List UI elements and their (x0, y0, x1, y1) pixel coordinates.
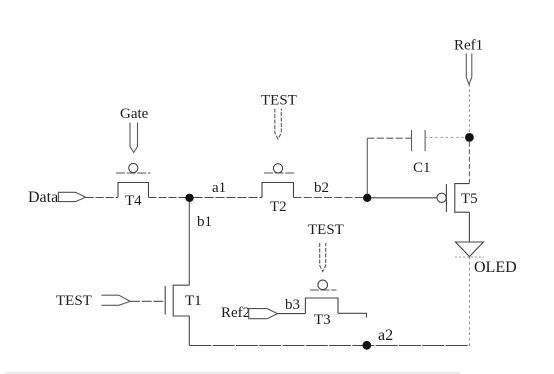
junction node on Ref1 line (465, 133, 474, 142)
svg-text:a2: a2 (378, 327, 393, 344)
wire T5 source down (468, 212, 470, 242)
wire Ref2 to T3 (278, 313, 306, 315)
transistor T3 (305, 280, 338, 328)
input arrow Ref2 (249, 309, 278, 319)
scan smudge bottom edge (5, 372, 460, 374)
wire T2 to node b2 (294, 197, 364, 199)
svg-text:b2: b2 (314, 180, 329, 196)
svg-text:Data: Data (28, 189, 58, 206)
svg-text:T1: T1 (185, 293, 202, 309)
control arrow Gate (130, 123, 138, 153)
wire TEST arrow to T1 gate (130, 300, 165, 302)
control arrow TEST left (102, 295, 131, 305)
control arrow TEST over T3 (320, 243, 326, 272)
svg-text:T2: T2 (270, 199, 287, 215)
wire node b2 to T5 gate (371, 197, 437, 199)
capacitor C1 (412, 130, 431, 176)
junction node a2 (362, 341, 371, 350)
supply arrow Ref1 (466, 54, 472, 85)
transistor T2 (262, 164, 295, 215)
svg-text:b1: b1 (197, 214, 212, 230)
svg-text:T4: T4 (125, 193, 142, 209)
junction node b2 (363, 194, 371, 202)
wire C1 left lead (367, 137, 411, 139)
svg-text:TEST: TEST (308, 222, 344, 238)
wire T3 drain stub (338, 313, 367, 317)
svg-text:Gate: Gate (120, 106, 149, 122)
svg-text:Ref2: Ref2 (221, 305, 250, 321)
junction node a1/b1 (185, 194, 193, 202)
OLED diode (455, 242, 517, 276)
svg-text:TEST: TEST (56, 293, 92, 309)
wire node b2 up to C1 (366, 138, 368, 194)
svg-text:b3: b3 (285, 297, 300, 313)
svg-text:Ref1: Ref1 (454, 38, 483, 54)
transistor T4 (116, 163, 151, 209)
wire junction to T5 drain (468, 142, 470, 184)
wire T4 to node a1 (149, 197, 186, 199)
wire bottom rail (189, 345, 469, 347)
wire Data to T4 (86, 197, 118, 199)
svg-text:OLED: OLED (474, 259, 517, 276)
wire Ref1 to junction (468, 85, 470, 134)
wire C1 right lead (425, 137, 465, 139)
wire T1 source to bottom rail (188, 316, 190, 346)
svg-text:C1: C1 (413, 160, 431, 176)
svg-text:a1: a1 (212, 180, 226, 196)
wire node a1 to T2 (194, 197, 263, 199)
svg-text:T5: T5 (461, 191, 478, 207)
wire OLED to bottom rail (469, 257, 471, 346)
transistor T5 (437, 184, 478, 213)
input arrow Data (58, 192, 85, 201)
control arrow TEST over T2 (275, 109, 282, 139)
svg-text:TEST: TEST (261, 93, 297, 109)
svg-text:T3: T3 (314, 312, 331, 328)
wire node b1 down to T1 (188, 202, 190, 285)
transistor T1 (165, 285, 201, 316)
